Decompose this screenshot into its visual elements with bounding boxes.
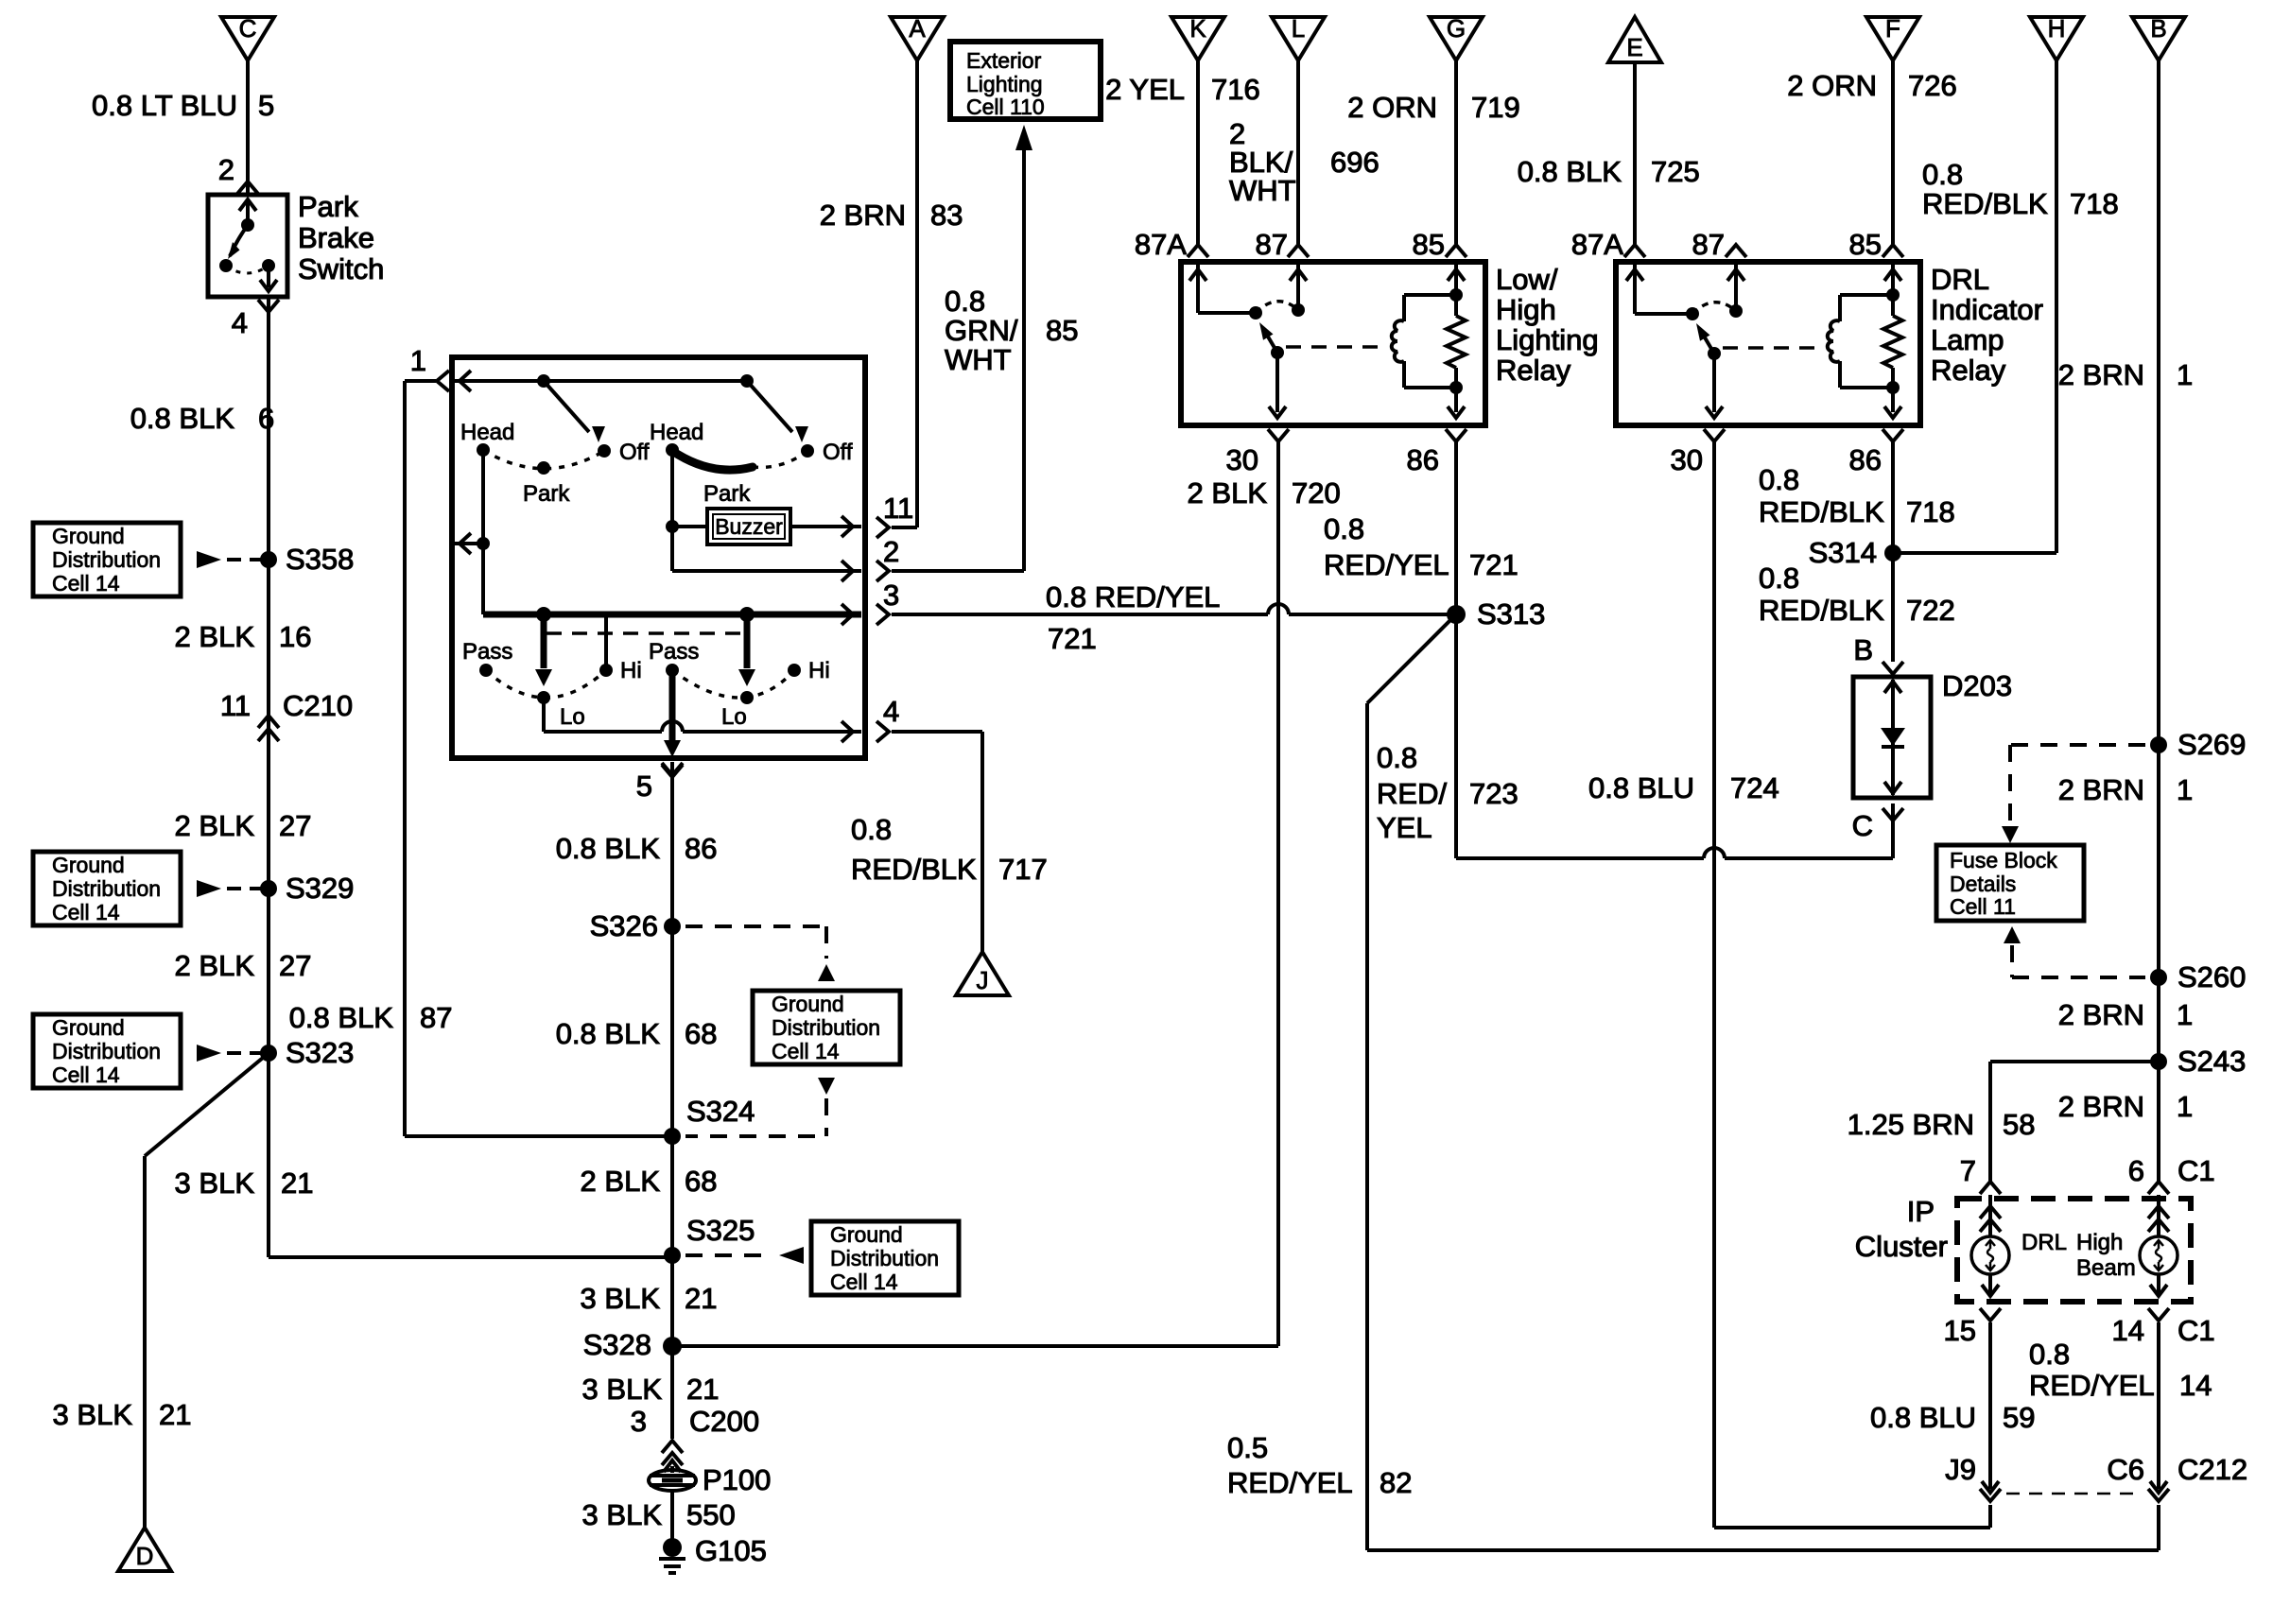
svg-text:1: 1 — [2177, 773, 2193, 806]
svg-text:Ground: Ground — [52, 524, 125, 548]
dashed arc head-park-off 1 — [483, 450, 604, 469]
svg-text:726: 726 — [1908, 69, 1957, 102]
svg-text:Low/: Low/ — [1496, 263, 1558, 296]
svg-text:A: A — [909, 14, 926, 43]
splice S269 — [2150, 728, 2246, 761]
svg-text:716: 716 — [1211, 73, 1260, 106]
dashed fuse block to S260 — [2004, 926, 2145, 977]
svg-text:RED/: RED/ — [1377, 777, 1447, 810]
wire pin15 to J9 — [1980, 1322, 2001, 1528]
splice S313 — [1447, 597, 1545, 631]
IP cluster labels — [1855, 1195, 1948, 1263]
thick arrow down 1 — [535, 614, 552, 686]
svg-text:Details: Details — [1950, 872, 2016, 896]
svg-text:2 BRN: 2 BRN — [2058, 358, 2144, 391]
svg-text:717: 717 — [998, 853, 1048, 886]
ground distribution box 3 — [33, 1014, 181, 1088]
relay2 pin labels — [1571, 228, 1882, 261]
grommet P100 — [649, 1460, 771, 1496]
svg-text:87: 87 — [1692, 228, 1725, 261]
IP cluster box — [1957, 1199, 2191, 1302]
svg-text:C: C — [239, 14, 257, 43]
label 0.8 RED/YEL 14 — [2029, 1338, 2212, 1402]
label 2 BRN 83 — [820, 199, 963, 232]
label 2 BLK 16 — [175, 620, 312, 653]
svg-text:Indicator: Indicator — [1931, 293, 2043, 326]
label 0.8 GRN/WHT 85 — [945, 285, 1078, 376]
svg-text:Cell 14: Cell 14 — [52, 900, 120, 924]
svg-text:K: K — [1189, 14, 1206, 43]
relay2 top chevrons — [1624, 245, 1903, 257]
svg-text:Relay: Relay — [1931, 354, 2006, 387]
svg-text:0.8 RED/YEL: 0.8 RED/YEL — [1046, 580, 1220, 613]
switch pin chevrons and numbers — [636, 492, 913, 803]
label 0.8 RED/BLK 717 — [851, 813, 1048, 886]
svg-text:Beam: Beam — [2076, 1255, 2136, 1281]
headlamp switch box — [452, 357, 865, 758]
main left ground wire (park brake sw to S323 corner) — [258, 297, 279, 1257]
svg-text:722: 722 — [1906, 594, 1955, 627]
svg-text:1: 1 — [2177, 998, 2193, 1031]
svg-text:Exterior: Exterior — [966, 48, 1042, 73]
label 0.8 RED/BLK 718 (top) — [1922, 158, 2119, 220]
svg-text:82: 82 — [1379, 1466, 1412, 1499]
label 0.8 RED/YEL 721 (right) — [1324, 512, 1518, 581]
svg-text:27: 27 — [279, 949, 311, 982]
buzzer feed wire — [666, 450, 707, 571]
svg-text:721: 721 — [1469, 548, 1518, 581]
svg-text:B: B — [1853, 633, 1873, 666]
svg-text:Ground: Ground — [52, 853, 125, 877]
svg-text:0.8: 0.8 — [851, 813, 892, 846]
svg-text:Pass: Pass — [649, 639, 699, 665]
pass contact 2 — [649, 639, 699, 677]
head position 1 — [460, 420, 514, 457]
svg-text:725: 725 — [1651, 155, 1700, 188]
svg-text:S323: S323 — [286, 1036, 354, 1069]
wire L to relay1 87 — [1296, 60, 1300, 244]
wire lo1 to pin 4 with hop — [544, 698, 861, 742]
svg-text:Lighting: Lighting — [966, 72, 1043, 96]
svg-text:Park: Park — [523, 481, 570, 507]
svg-text:21: 21 — [686, 1373, 719, 1406]
svg-text:RED/YEL: RED/YEL — [1227, 1466, 1353, 1499]
connector F — [1866, 14, 1919, 60]
label 3 BLK 21 (below S323) — [175, 1166, 314, 1200]
wire pass2 to pin 5 (thick) — [664, 670, 681, 757]
svg-text:Lo: Lo — [721, 704, 747, 730]
svg-text:Hi: Hi — [808, 658, 830, 683]
label 2 BLK/WHT 696 — [1229, 117, 1379, 207]
connector C — [221, 14, 274, 60]
IP pin14 exit — [2148, 1274, 2169, 1321]
label 2 BLK 68 — [581, 1165, 718, 1198]
svg-text:WHT: WHT — [1229, 174, 1296, 207]
svg-text:3: 3 — [631, 1405, 647, 1438]
svg-text:83: 83 — [930, 199, 963, 232]
relay1 bottom chevrons — [1268, 429, 1466, 441]
svg-text:RED/BLK: RED/BLK — [1922, 187, 2048, 220]
wire P100 to G105 — [670, 1491, 674, 1543]
svg-text:721: 721 — [1048, 622, 1097, 655]
connector E — [1608, 17, 1661, 62]
svg-text:C1: C1 — [2178, 1154, 2215, 1187]
svg-text:11: 11 — [220, 689, 251, 722]
relay2 87A internal — [1626, 265, 1699, 320]
label 3 BLK 21 (wire to D) — [53, 1398, 192, 1431]
svg-text:High: High — [1496, 293, 1556, 326]
IP pin6 entry — [2148, 1182, 2169, 1236]
svg-text:Lighting: Lighting — [1496, 323, 1599, 356]
relay1 switch dashed arc — [1256, 302, 1298, 313]
fuse block details box — [1936, 845, 2084, 921]
svg-text:720: 720 — [1292, 476, 1341, 510]
svg-text:S358: S358 — [286, 543, 354, 576]
dashed connector line J9-C6 — [2006, 1493, 2143, 1495]
splice S358 — [197, 543, 354, 576]
ground G105 — [659, 1534, 767, 1573]
svg-text:Head: Head — [460, 420, 514, 445]
svg-text:87: 87 — [420, 1001, 452, 1034]
splice S323 — [197, 1036, 354, 1069]
label 0.8 LT BLU 5 — [92, 89, 274, 122]
svg-text:Ground: Ground — [52, 1015, 125, 1040]
wire 85 pin2 to exterior lighting — [892, 125, 1032, 571]
off position 2 — [801, 440, 853, 465]
svg-text:21: 21 — [685, 1282, 717, 1315]
relay2 resistor — [1883, 295, 1902, 388]
splice S243 — [2150, 1045, 2246, 1078]
connector A — [891, 14, 944, 60]
svg-text:85: 85 — [1046, 314, 1078, 347]
svg-text:3 BLK: 3 BLK — [581, 1282, 661, 1315]
svg-text:C1: C1 — [2178, 1314, 2215, 1347]
lo contact 1 — [537, 691, 585, 730]
svg-text:0.8: 0.8 — [1324, 512, 1364, 545]
svg-text:2 BLK: 2 BLK — [175, 809, 255, 842]
park position 1 — [523, 461, 570, 507]
switch top feed wire — [455, 371, 754, 391]
relay1 armature — [1259, 322, 1284, 359]
label 2 BRN 1 (S269-S260) — [2058, 773, 2194, 806]
svg-text:86: 86 — [1849, 443, 1882, 476]
relay2 87 internal stub — [1727, 265, 1744, 318]
wire H to S314 — [1893, 60, 2056, 553]
label 3 BLK 21 (below S328) — [582, 1373, 720, 1406]
wire E to relay2 87A — [1633, 62, 1637, 244]
svg-text:Park: Park — [703, 481, 751, 507]
label 2 BLK 27 lower — [175, 949, 312, 982]
relay2 coil dashed link — [1723, 346, 1819, 350]
svg-text:Head: Head — [650, 420, 703, 445]
svg-text:RED/BLK: RED/BLK — [1759, 594, 1884, 627]
wire 724 with hop — [1456, 848, 1893, 858]
svg-text:Cell 11: Cell 11 — [1950, 894, 2016, 919]
dashed ground box 4 to S324 — [685, 1078, 835, 1136]
svg-text:F: F — [1885, 14, 1900, 43]
svg-text:3 BLK: 3 BLK — [53, 1398, 133, 1431]
svg-text:L: L — [1292, 14, 1305, 43]
hi contact 1 — [599, 614, 642, 683]
svg-text:Relay: Relay — [1496, 354, 1571, 387]
svg-text:2 BRN: 2 BRN — [2058, 1090, 2144, 1123]
svg-text:0.5: 0.5 — [1227, 1431, 1268, 1464]
svg-text:D: D — [136, 1542, 154, 1570]
svg-text:0.8 BLK: 0.8 BLK — [556, 1017, 661, 1050]
splice S325 — [664, 1214, 755, 1264]
relay1 top chevrons — [1188, 245, 1466, 257]
label pin 4 — [232, 306, 248, 339]
svg-text:G105: G105 — [695, 1534, 767, 1567]
label 0.8 BLU 724 — [1588, 771, 1779, 804]
switch arm arrow 2 — [747, 381, 808, 442]
svg-text:D203: D203 — [1942, 669, 2012, 702]
connector C200 — [631, 1405, 759, 1465]
svg-text:2 BLK: 2 BLK — [581, 1165, 661, 1198]
relay1 85 internal — [1448, 265, 1465, 295]
relay2 coil — [1828, 288, 1900, 394]
svg-text:C200: C200 — [689, 1405, 759, 1438]
label 0.8 BLK 725 — [1518, 155, 1700, 188]
diode D203 box — [1853, 669, 2012, 798]
svg-text:0.8 LT BLU: 0.8 LT BLU — [92, 89, 237, 122]
svg-text:2: 2 — [883, 535, 899, 568]
svg-text:S243: S243 — [2178, 1045, 2246, 1078]
connector D — [118, 1528, 171, 1571]
wire head1 down — [477, 450, 490, 614]
svg-text:85: 85 — [1413, 228, 1445, 261]
label 0.8 BLK 68 — [556, 1017, 718, 1050]
label 0.8 BLK 87 — [289, 1001, 453, 1034]
wire S323 to D (3 BLK 21) — [145, 1053, 269, 1528]
svg-text:E: E — [1626, 33, 1642, 61]
head position 2 — [650, 420, 703, 457]
svg-text:Distribution: Distribution — [830, 1246, 939, 1270]
connector J — [956, 952, 1009, 995]
svg-text:S329: S329 — [286, 872, 354, 905]
relay1 resistor — [1447, 295, 1466, 388]
svg-text:RED/YEL: RED/YEL — [1324, 548, 1449, 581]
svg-text:0.8 BLU: 0.8 BLU — [1870, 1401, 1976, 1434]
svg-text:5: 5 — [258, 89, 274, 122]
high beam lamp — [2076, 1230, 2178, 1281]
label DRL indicator lamp relay — [1931, 263, 2043, 387]
svg-text:723: 723 — [1469, 777, 1518, 810]
thick switch blade head2-park2 — [672, 451, 753, 470]
svg-text:0.8: 0.8 — [1759, 463, 1799, 496]
wire D203 to 724 corner — [1891, 803, 1895, 858]
svg-text:718: 718 — [2070, 187, 2119, 220]
svg-text:87A: 87A — [1571, 228, 1623, 261]
dashed S269 to fuse block — [2002, 745, 2145, 843]
park position 2 label — [703, 481, 751, 507]
diode D203 internal — [1881, 680, 1905, 795]
svg-text:DRL: DRL — [2021, 1230, 2067, 1255]
wire S328 to relay1 pin30 riser — [672, 441, 1278, 1346]
wire S243 to IP pin7 — [1990, 1062, 2159, 1182]
svg-text:58: 58 — [2003, 1108, 2035, 1141]
svg-text:Switch: Switch — [298, 252, 384, 285]
svg-text:2 BLK: 2 BLK — [175, 620, 255, 653]
connector labels J9 C6 C212 — [1945, 1453, 2247, 1486]
svg-text:S326: S326 — [590, 909, 658, 942]
svg-text:2 BLK: 2 BLK — [175, 949, 255, 982]
svg-text:550: 550 — [686, 1498, 736, 1531]
headlamp switch pin 1 chevron — [410, 344, 449, 391]
wire G to relay1 85 — [1454, 60, 1458, 244]
svg-text:1: 1 — [410, 344, 426, 377]
svg-text:Lamp: Lamp — [1931, 323, 2004, 356]
exterior lighting cell 110 box — [950, 42, 1101, 119]
svg-text:S269: S269 — [2178, 728, 2246, 761]
svg-text:Distribution: Distribution — [52, 1039, 161, 1063]
svg-text:0.8 BLK: 0.8 BLK — [556, 832, 661, 865]
connector K — [1171, 14, 1224, 60]
dashed arc pass-lo-hi 1 — [486, 670, 606, 698]
wire to pin 2 — [672, 561, 861, 581]
wire 5 from C to park brake switch — [237, 60, 258, 195]
relay1 87 internal — [1290, 265, 1307, 317]
svg-text:0.8: 0.8 — [2029, 1338, 2070, 1371]
svg-text:21: 21 — [281, 1166, 313, 1200]
label 0.8 BLK 86 — [556, 832, 718, 865]
svg-text:11: 11 — [883, 492, 913, 525]
svg-text:Cell 14: Cell 14 — [830, 1270, 898, 1294]
label 3 BLK 21 (S325-S328) — [581, 1282, 718, 1315]
svg-text:Brake: Brake — [298, 221, 374, 254]
svg-text:Ground: Ground — [830, 1222, 903, 1247]
label 0.8 RED/YEL 721 (left) — [1046, 580, 1220, 655]
svg-text:GRN/: GRN/ — [945, 314, 1018, 347]
svg-text:S324: S324 — [686, 1095, 755, 1128]
splice S324 — [664, 1095, 755, 1145]
svg-text:3: 3 — [883, 579, 899, 612]
svg-text:14: 14 — [2179, 1369, 2212, 1402]
label 1.25 BRN 58 — [1848, 1108, 2036, 1141]
connector L — [1272, 14, 1325, 60]
label 2 YEL 716 — [1105, 73, 1260, 106]
svg-text:Distribution: Distribution — [52, 547, 161, 572]
svg-text:0.8: 0.8 — [1922, 158, 1963, 191]
svg-text:RED/BLK: RED/BLK — [1759, 495, 1884, 528]
label 0.8 RED/BLK 722 — [1759, 561, 1955, 627]
wire pin5 ground chain — [662, 762, 683, 1439]
buzzer — [707, 509, 790, 544]
svg-text:719: 719 — [1471, 91, 1520, 124]
label park brake switch — [298, 190, 384, 285]
wire relay1 86 to S313 — [1454, 441, 1458, 614]
connector G — [1430, 14, 1483, 60]
svg-text:2 BLK: 2 BLK — [1188, 476, 1268, 510]
svg-text:J: J — [977, 966, 989, 994]
off position 1 — [598, 440, 650, 465]
diode D203 pin C — [1852, 808, 1903, 842]
svg-text:30: 30 — [1226, 443, 1258, 476]
svg-text:2 BRN: 2 BRN — [820, 199, 906, 232]
buzzer output to pin 11 — [790, 516, 861, 537]
lo contact 2 — [721, 691, 754, 730]
relay2 pin30 internal — [1706, 354, 1723, 418]
svg-text:Cell 14: Cell 14 — [772, 1039, 840, 1063]
wire relay2 86 to S314 (718) — [1891, 441, 1895, 553]
park brake switch box — [208, 195, 287, 297]
dashed S325 to ground box 5 — [685, 1247, 804, 1264]
wire K to relay1 87A — [1196, 60, 1200, 244]
label 2 BLK 720 — [1188, 476, 1341, 510]
svg-text:87: 87 — [1256, 228, 1288, 261]
svg-text:YEL: YEL — [1377, 811, 1432, 844]
svg-text:Pass: Pass — [462, 639, 512, 665]
svg-text:Cell 14: Cell 14 — [52, 571, 120, 596]
svg-text:1: 1 — [2177, 358, 2193, 391]
svg-text:724: 724 — [1730, 771, 1779, 804]
relay2 bottom pin labels — [1671, 443, 1882, 476]
svg-text:Fuse Block: Fuse Block — [1950, 848, 2057, 872]
IP pin15 exit — [1980, 1274, 2001, 1321]
connector H — [2030, 14, 2083, 60]
svg-text:S313: S313 — [1477, 597, 1545, 631]
label pin 2 — [218, 153, 234, 186]
label 2 BLK 27 upper — [175, 809, 312, 842]
ground distribution box 4 — [753, 991, 900, 1064]
svg-text:Ground: Ground — [772, 992, 844, 1016]
relay1 87A internal — [1189, 265, 1262, 320]
splice S329 — [197, 872, 354, 905]
label 0.8 BLU 59 — [1870, 1401, 2036, 1434]
svg-text:Cell 14: Cell 14 — [52, 1063, 120, 1087]
relay1 coil dashed link — [1286, 345, 1382, 349]
svg-text:H: H — [2048, 14, 2066, 43]
label 0.8 RED/BLK 718 (mid) — [1759, 463, 1955, 528]
svg-text:S328: S328 — [583, 1328, 651, 1361]
svg-text:5: 5 — [636, 769, 652, 803]
svg-text:1.25 BRN: 1.25 BRN — [1848, 1108, 1974, 1141]
wire 82 S313 to B riser — [1367, 614, 2159, 1550]
wire 723 S313 down — [1454, 614, 1458, 858]
svg-text:IP: IP — [1907, 1195, 1935, 1228]
svg-text:DRL: DRL — [1931, 263, 1989, 296]
svg-text:Hi: Hi — [620, 658, 642, 683]
park brake switch interior — [219, 199, 277, 291]
svg-text:C210: C210 — [283, 689, 353, 722]
ground distribution box 5 — [811, 1221, 959, 1295]
svg-text:J9: J9 — [1945, 1453, 1976, 1486]
svg-text:Buzzer: Buzzer — [715, 514, 783, 539]
svg-text:30: 30 — [1671, 443, 1703, 476]
svg-text:16: 16 — [279, 620, 311, 653]
svg-text:3 BLK: 3 BLK — [175, 1166, 255, 1200]
switch arm arrow 1 — [544, 381, 605, 442]
wire S323 corner to S325 — [269, 1255, 672, 1259]
svg-text:0.8 BLU: 0.8 BLU — [1588, 771, 1694, 804]
svg-text:Distribution: Distribution — [772, 1015, 880, 1040]
svg-text:Lo: Lo — [560, 704, 585, 730]
svg-text:Park: Park — [298, 190, 358, 223]
svg-text:2 YEL: 2 YEL — [1105, 73, 1185, 106]
IP cluster pin labels bottom — [1944, 1314, 2215, 1347]
splice S314 — [1809, 536, 1901, 569]
wire 721 pin3 to S313 with hop — [892, 604, 1456, 614]
hi contact 2 — [788, 658, 830, 683]
svg-text:6: 6 — [258, 402, 274, 435]
svg-text:68: 68 — [685, 1017, 717, 1050]
wire F to relay2 85 — [1891, 60, 1895, 244]
svg-text:3 BLK: 3 BLK — [582, 1498, 663, 1531]
relay2 86 internal — [1884, 388, 1901, 418]
svg-text:Cluster: Cluster — [1855, 1230, 1948, 1263]
wire 717 pin4 to connector J — [892, 732, 982, 952]
svg-text:0.8 BLK: 0.8 BLK — [130, 402, 235, 435]
